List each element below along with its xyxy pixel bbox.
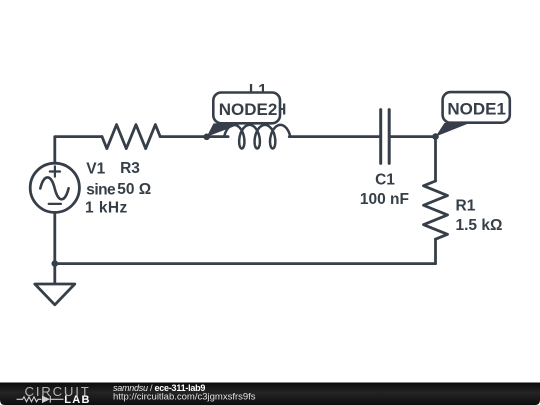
- svg-text:R1: R1: [456, 198, 476, 215]
- inductor L1 coil: [224, 125, 290, 149]
- svg-text:1.5 kΩ: 1.5 kΩ: [456, 217, 503, 234]
- ground symbol: [35, 284, 75, 305]
- wire V1 top to R3: [55, 137, 102, 164]
- node ground junction dot: [52, 260, 59, 267]
- svg-text:R3: R3: [120, 160, 140, 177]
- svg-text:C1: C1: [375, 171, 395, 188]
- node NODE2 junction dot: [203, 134, 210, 141]
- wire C1 to node NODE1: [391, 135, 436, 138]
- wire ground stub: [53, 264, 56, 284]
- wire R1 to bottom rail: [434, 239, 437, 263]
- logo schematic squiggle wire: [17, 396, 64, 403]
- capacitor C1 left plate: [379, 110, 382, 164]
- resistor R3: [102, 125, 160, 149]
- svg-text:1 kHz: 1 kHz: [85, 200, 128, 217]
- flag NODE2 box: [213, 93, 280, 124]
- resistor R1: [424, 181, 448, 239]
- wire R3 to node NODE2: [160, 135, 228, 138]
- flag NODE1 pointer wedge: [436, 123, 471, 137]
- flag NODE2 pointer wedge: [207, 123, 242, 136]
- wire bottom rail: [55, 262, 436, 265]
- svg-text:sine: sine: [86, 181, 116, 198]
- wire NODE1 down to R1: [434, 137, 437, 181]
- V1 minus sign: [49, 203, 61, 205]
- node NODE1 junction dot: [432, 133, 439, 140]
- V1 sine wave: [40, 177, 68, 199]
- logo diode triangle: [42, 396, 50, 404]
- svg-text:V1: V1: [86, 161, 105, 178]
- voltage source V1 circle: [30, 163, 79, 212]
- svg-text:100 nF: 100 nF: [360, 191, 409, 208]
- svg-text:NODE2: NODE2: [219, 100, 278, 119]
- svg-text:LAB: LAB: [64, 394, 91, 405]
- svg-text:NODE1: NODE1: [447, 100, 506, 119]
- svg-text:http://circuitlab.com/c3jgmxsf: http://circuitlab.com/c3jgmxsfrs9fs: [113, 392, 256, 403]
- wire V1 bottom: [53, 212, 56, 263]
- flag NODE1 box: [443, 92, 510, 123]
- capacitor C1 right plate: [388, 110, 391, 164]
- svg-text:50 Ω: 50 Ω: [117, 181, 151, 198]
- wire L1 to C1: [289, 135, 379, 138]
- V1 plus sign: [50, 166, 60, 176]
